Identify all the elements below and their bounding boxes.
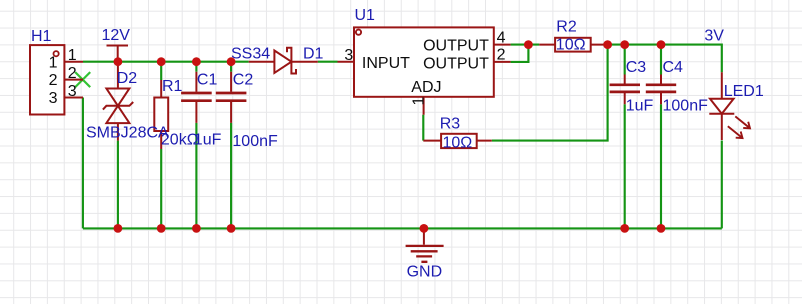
svg-text:4: 4 — [497, 29, 506, 46]
svg-text:OUTPUT: OUTPUT — [423, 55, 489, 72]
svg-text:C1: C1 — [197, 72, 218, 89]
svg-text:GND: GND — [407, 263, 443, 280]
svg-text:1uF: 1uF — [626, 98, 654, 115]
svg-text:3: 3 — [344, 47, 353, 64]
svg-text:D1: D1 — [303, 46, 324, 63]
svg-text:ADJ: ADJ — [411, 79, 441, 96]
svg-text:R2: R2 — [556, 18, 577, 35]
svg-text:C2: C2 — [233, 72, 254, 89]
svg-text:3: 3 — [49, 90, 58, 107]
svg-text:1uF: 1uF — [194, 132, 222, 149]
svg-text:10Ω: 10Ω — [556, 36, 586, 53]
svg-text:OUTPUT: OUTPUT — [423, 37, 489, 54]
svg-text:12V: 12V — [102, 27, 131, 44]
svg-text:SS34: SS34 — [231, 46, 270, 63]
svg-text:H1: H1 — [31, 28, 52, 45]
svg-text:C3: C3 — [626, 59, 647, 76]
svg-text:SMBJ28CA: SMBJ28CA — [86, 125, 169, 142]
svg-text:100nF: 100nF — [232, 133, 278, 150]
svg-text:U1: U1 — [355, 7, 376, 24]
svg-text:1: 1 — [68, 47, 77, 64]
svg-text:1: 1 — [49, 54, 58, 71]
svg-text:1: 1 — [411, 97, 428, 106]
svg-text:100nF: 100nF — [663, 98, 709, 115]
svg-text:D2: D2 — [117, 70, 138, 87]
svg-text:R3: R3 — [440, 115, 461, 132]
svg-text:INPUT: INPUT — [362, 55, 410, 72]
svg-text:C4: C4 — [663, 59, 684, 76]
svg-text:3V: 3V — [704, 28, 724, 45]
svg-text:10Ω: 10Ω — [443, 135, 473, 152]
svg-text:2: 2 — [497, 47, 506, 64]
svg-text:R1: R1 — [162, 78, 183, 95]
svg-text:2: 2 — [68, 65, 77, 82]
svg-text:2: 2 — [49, 72, 58, 89]
svg-text:LED1: LED1 — [724, 83, 764, 100]
svg-text:3: 3 — [68, 83, 77, 100]
